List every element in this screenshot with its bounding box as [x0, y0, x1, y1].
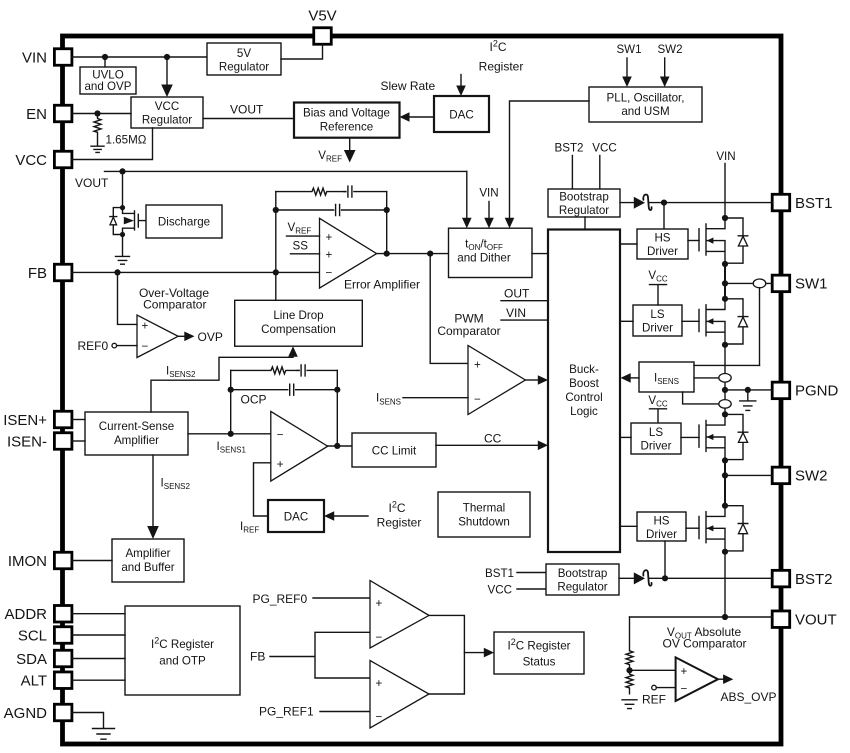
svg-text:Regulator: Regulator [142, 114, 192, 127]
switch squiggle bootstrap2 [643, 570, 651, 586]
wire SW2 node to SW2 pin [725, 474, 772, 476]
svg-text:Register: Register [377, 516, 422, 530]
wire SW1 sensor tap down [759, 288, 761, 366]
wire feedback left vertical [275, 192, 277, 301]
block LS Driver 1 [633, 305, 682, 336]
wire EN to VCC Regulator [72, 113, 131, 115]
svg-text:+: + [474, 358, 481, 371]
node feedback left C2 junction [273, 207, 279, 213]
svg-text:+: + [142, 319, 149, 332]
capacitor error-amp feedback C1 [344, 186, 387, 197]
wire ISEN+ to Current-Sense Amplifier [72, 419, 85, 421]
node OCP output junction [334, 443, 340, 449]
wire IMON to Amplifier and Buffer [72, 560, 112, 562]
op-amp error amplifier [320, 218, 421, 291]
svg-text:ALT: ALT [21, 673, 47, 690]
svg-text:Thermal: Thermal [463, 502, 506, 515]
svg-text:Compensation: Compensation [261, 323, 336, 336]
svg-text:−: − [376, 711, 383, 724]
svg-text:Current-Sense: Current-Sense [99, 420, 174, 433]
svg-text:Bootstrap: Bootstrap [558, 567, 608, 580]
wire VREF input to error amplifier [287, 221, 320, 236]
block UVLO and OVP [80, 67, 136, 94]
wire VOUT sense line [75, 171, 467, 190]
svg-text:BST1: BST1 [485, 567, 514, 580]
wire divider tap to comparator plus [630, 669, 676, 671]
node FB-feedback junction [273, 269, 279, 275]
svg-text:Control: Control [565, 391, 602, 404]
svg-text:SW1: SW1 [795, 276, 828, 293]
wire ISENS input to PWM comparator [376, 392, 468, 407]
sensor ellipse shunt 1 [719, 374, 731, 383]
block Discharge [146, 205, 222, 238]
wire HS1 source to LS1 drain [724, 264, 726, 299]
wire arrow DAC to Bias [400, 112, 435, 122]
wire arrow PG status to I2C Register Status [464, 648, 494, 658]
wire arrow SW1 into PLL [622, 58, 632, 87]
svg-text:Regulator: Regulator [557, 581, 607, 594]
pin BST2 [772, 570, 832, 588]
svg-text:Regulator: Regulator [219, 61, 269, 74]
op-amp PG comparator 1 [370, 661, 429, 729]
wire BST1 into Bootstrap Regulator 2 [517, 572, 546, 574]
svg-text:VOUT: VOUT [795, 612, 837, 629]
svg-text:+: + [277, 458, 284, 471]
svg-text:−: − [474, 393, 481, 406]
svg-text:VIN: VIN [716, 150, 735, 163]
svg-text:−: − [681, 682, 688, 695]
wire VCC into Bootstrap Regulator 2 [517, 588, 546, 590]
block I2C Register and OTP [125, 606, 240, 695]
switch squiggle bootstrap1 [643, 194, 651, 210]
node VOUT junction [722, 614, 728, 620]
wire VCC Regulator output VOUT to Bias [203, 103, 294, 119]
sensor ellipse SW1 [753, 279, 766, 288]
block Bootstrap Regulator 1 [548, 189, 620, 217]
transistor discharge FET [110, 205, 146, 237]
wire arrow I2C Register into DAC [456, 75, 466, 97]
wire Bootstrap1 to Buck-Boost [584, 217, 586, 230]
wire arrow ISENS2 down to Amplifier and Buffer [147, 455, 190, 539]
svg-text:Line Drop: Line Drop [273, 309, 323, 322]
wire VIN to HS1 drain [724, 164, 726, 219]
resistor VOUT divider R1 [626, 651, 633, 668]
svg-text:Driver: Driver [646, 528, 677, 541]
wire SCL to I2C block [72, 634, 125, 636]
block Bias and Voltage Reference [294, 103, 400, 138]
transistor LS2 with body diode [699, 411, 748, 463]
svg-text:Discharge: Discharge [158, 216, 210, 229]
svg-text:SW2: SW2 [795, 468, 828, 485]
pin SCL [18, 627, 72, 645]
capacitor OCP feedback C2 [231, 384, 338, 395]
wire LS1 source down to LS2 drain [724, 345, 726, 415]
node divider tap junction [626, 667, 632, 673]
pin BST1 [772, 194, 832, 212]
svg-text:and USM: and USM [621, 105, 669, 118]
IC boundary border [63, 36, 782, 744]
svg-text:VOUT: VOUT [75, 176, 109, 190]
wire LS2 source to HS2 drain [724, 460, 726, 505]
wire ISENS1 output to OCP [188, 434, 271, 455]
pin ISEN- [7, 433, 72, 451]
svg-text:Error Amplifier: Error Amplifier [344, 278, 420, 292]
wire error-amp output to tON/tOFF [377, 253, 449, 255]
svg-text:PLL, Oscillator,: PLL, Oscillator, [607, 92, 685, 105]
wire arrow OVP output [178, 330, 223, 344]
svg-text:OVP: OVP [198, 330, 223, 344]
pin VCC [15, 151, 72, 169]
diode bootstrap2 [634, 572, 645, 584]
svg-text:BST1: BST1 [795, 195, 833, 212]
capacitor error-amp feedback C2 [276, 205, 387, 216]
svg-text:Status: Status [523, 656, 556, 669]
block HS Driver 1 [637, 229, 688, 259]
node BST1-HSdriver junction [661, 200, 667, 230]
wire PG_REF0 input [253, 592, 371, 606]
wire VIN input to Buck-Boost [501, 306, 548, 320]
block DAC U-top [434, 96, 489, 132]
wire VIN to 5V Regulator [72, 56, 207, 58]
transistor HS2 with body diode [699, 503, 748, 555]
svg-text:SW2: SW2 [657, 43, 682, 56]
sensor ellipse shunt 2 [719, 400, 731, 409]
wire HS2 source down to VOUT node [724, 552, 726, 617]
wire ISENS box mid input from shunt1 [694, 377, 719, 379]
pin ISEN+ [3, 411, 72, 429]
block ISENS amplifier [639, 362, 694, 392]
svg-text:+: + [326, 231, 333, 244]
svg-text:I2C: I2C [388, 500, 405, 516]
block HS Driver 2 [637, 512, 686, 541]
wire PG outputs combine [429, 615, 464, 694]
node REF terminal [642, 685, 676, 706]
svg-text:and Dither: and Dither [457, 252, 511, 265]
op-amp PG comparator 0 [370, 581, 429, 649]
wire Buck-Boost to HS Driver 2 [620, 525, 637, 527]
wire SDA to I2C block [72, 658, 125, 660]
transistor HS1 with body diode [699, 215, 748, 267]
wire 5V Regulator to V5V pin [281, 44, 323, 59]
svg-text:FB: FB [28, 265, 47, 282]
wire AGND to ground [72, 713, 104, 729]
svg-text:VCC: VCC [592, 142, 616, 155]
wire VOUT divider top [629, 617, 631, 651]
block tON/tOFF and Dither [449, 228, 533, 277]
wire ISENS box top input from SW1 tap [694, 364, 760, 366]
transistor LS1 with body diode [699, 296, 748, 348]
pin ADDR [4, 606, 71, 624]
svg-text:SDA: SDA [16, 651, 47, 668]
svg-text:DAC: DAC [284, 511, 308, 524]
wire ISENS2 to Line Drop Compensation [151, 346, 298, 412]
svg-text:−: − [326, 266, 333, 279]
svg-text:LS: LS [650, 308, 664, 321]
svg-text:REF: REF [642, 692, 666, 706]
node SW1 junction [722, 280, 728, 286]
svg-text:IMON: IMON [8, 553, 47, 570]
wire arrow ISENS to Buck-Boost [621, 373, 640, 383]
svg-text:Buck-: Buck- [569, 363, 599, 376]
wire Buck-Boost to HS Driver 1 [620, 243, 637, 245]
svg-text:DAC: DAC [449, 109, 473, 122]
svg-text:VCC: VCC [488, 583, 512, 596]
pin FB [28, 264, 72, 282]
wire OCP left vertical [230, 370, 232, 433]
svg-text:Amplifier: Amplifier [114, 434, 159, 447]
wire PLL output to tON/tOFF arrow [505, 101, 589, 228]
svg-text:ABS_OVP: ABS_OVP [721, 690, 777, 704]
block Bootstrap Regulator 2 [546, 564, 619, 595]
svg-text:Slew Rate: Slew Rate [381, 79, 436, 93]
svg-text:CC: CC [484, 431, 502, 445]
wire arrow CC to Buck-Boost [436, 431, 548, 450]
wire FB line [72, 271, 320, 273]
svg-text:5V: 5V [237, 47, 251, 60]
svg-text:and OVP: and OVP [84, 80, 131, 93]
pin EN [26, 105, 72, 123]
svg-text:Comparator: Comparator [143, 298, 206, 312]
svg-text:CC Limit: CC Limit [372, 445, 417, 458]
pin VIN [22, 49, 72, 67]
svg-text:Comparator: Comparator [437, 324, 500, 338]
wire IREF input to OCP plus [240, 463, 271, 535]
svg-text:HS: HS [653, 515, 669, 528]
svg-text:VCC: VCC [155, 100, 179, 113]
wire ADDR to I2C block [72, 613, 125, 615]
svg-text:AGND: AGND [4, 705, 48, 722]
svg-text:Driver: Driver [647, 245, 678, 258]
node FB-OVP junction [114, 269, 120, 275]
block LS Driver 2 [631, 423, 681, 454]
wire HS Driver 1 gate [688, 240, 699, 242]
ground below 1.65Mohm resistor [91, 146, 104, 152]
wire PGND node to PGND pin [725, 389, 772, 391]
svg-text:EN: EN [26, 106, 47, 123]
ground at AGND [93, 729, 115, 740]
resistor error-amp feedback R [276, 188, 346, 195]
node OCP left C2 junction [228, 387, 234, 393]
wire arrow I2C Register into DAC I-limit [324, 500, 421, 530]
power VCC symbol LS Driver 1 [648, 269, 668, 305]
wire HS Driver 2 to bootstrap2 output node [664, 541, 666, 578]
pin AGND [4, 704, 72, 722]
svg-text:Bias and Voltage: Bias and Voltage [303, 107, 390, 120]
wire PG_REF1 input [259, 705, 370, 719]
svg-text:VCC: VCC [15, 152, 47, 169]
resistor OCP feedback R [231, 367, 299, 374]
wire VCC into Bootstrap Regulator 1 [599, 156, 601, 190]
wire OCP right vertical [336, 370, 338, 446]
svg-text:Register: Register [479, 60, 524, 74]
svg-text:I2C Register: I2C Register [151, 636, 214, 652]
resistor 1.65Mohm [94, 114, 147, 147]
wire Bootstrap1 output to BST1 pin [620, 202, 772, 204]
block VCC Regulator [131, 97, 203, 128]
wire arrow VIN into VCC Regulator [161, 57, 173, 97]
power VCC symbol LS Driver 2 [648, 394, 668, 423]
svg-text:ISEN-: ISEN- [7, 433, 47, 450]
svg-text:BST2: BST2 [795, 571, 833, 588]
node OCP right C2 junction [334, 387, 340, 393]
wire Buck-Boost to LS Driver 1 [620, 320, 633, 322]
svg-text:Reference: Reference [320, 121, 374, 134]
svg-text:VOUT: VOUT [230, 103, 264, 117]
svg-text:BST2: BST2 [555, 142, 584, 155]
ground VOUT divider [622, 700, 637, 709]
op-amp over-voltage comparator [137, 286, 209, 358]
svg-text:−: − [277, 428, 284, 441]
svg-text:1.65MΩ: 1.65MΩ [106, 134, 147, 147]
svg-text:OV Comparator: OV Comparator [662, 637, 746, 651]
svg-text:OUT: OUT [504, 287, 530, 301]
svg-text:REF0: REF0 [78, 339, 109, 353]
wire feedback right vertical [386, 192, 388, 254]
svg-text:Driver: Driver [642, 322, 673, 335]
node error-amp output junction [384, 251, 390, 257]
capacitor OCP feedback C1 [297, 365, 337, 376]
wire ISENS box bottom input from shunt2 [683, 392, 719, 404]
pin ALT [21, 672, 72, 690]
wire OCP output to CC Limit [328, 445, 352, 447]
svg-text:ADDR: ADDR [4, 606, 47, 623]
pin IMON [8, 552, 72, 570]
node output-PWM junction [427, 251, 468, 364]
wire arrow VIN into tON/tOFF [479, 187, 498, 229]
svg-text:VIN: VIN [22, 49, 47, 66]
wire arrow ABS_OVP output [718, 674, 777, 704]
node REF0 terminal [78, 339, 138, 353]
block 5V Regulator [207, 43, 281, 75]
wire arrow VOUT line into tON/tOFF [462, 171, 472, 228]
block Current-Sense Amplifier [85, 412, 188, 455]
wire VOUT node to VOUT pin [630, 616, 773, 618]
op-amp VOUT absolute OV comparator [662, 625, 746, 701]
node feedback right C2 junction [384, 207, 390, 213]
svg-text:Amplifier: Amplifier [125, 547, 170, 560]
pin SW1 [772, 275, 827, 293]
node VOUT-discharge junction [119, 168, 125, 207]
resistor VOUT divider R2 [626, 670, 633, 693]
svg-text:FB: FB [250, 650, 265, 664]
wire ALT to I2C block [72, 679, 125, 681]
svg-text:PGND: PGND [795, 383, 839, 400]
svg-text:PG_REF0: PG_REF0 [253, 592, 308, 606]
svg-text:+: + [376, 597, 383, 610]
wire SS input to error amplifier [291, 240, 320, 254]
node PGND ground junction [745, 387, 751, 393]
svg-text:Shutdown: Shutdown [458, 516, 510, 529]
block Amplifier and Buffer [112, 539, 184, 582]
wire FB input to PG comparators [250, 632, 370, 678]
wire LS Driver 1 gate [682, 320, 699, 322]
svg-text:I2C: I2C [489, 39, 506, 55]
diode bootstrap1 [634, 197, 645, 209]
svg-text:PG_REF1: PG_REF1 [259, 705, 314, 719]
wire Bootstrap2 output to BST2 pin [619, 577, 772, 579]
svg-text:+: + [326, 249, 333, 262]
svg-text:SS: SS [293, 240, 309, 253]
svg-text:−: − [142, 340, 149, 353]
block DAC I-limit [268, 500, 324, 532]
wire BST2 into Bootstrap Regulator 1 [571, 156, 573, 190]
ground at PGND [740, 390, 756, 411]
block CC Limit [352, 433, 436, 467]
svg-text:Driver: Driver [641, 440, 672, 453]
block Line Drop Compensation [235, 300, 363, 346]
block PLL Oscillator and USM [589, 87, 702, 122]
ground below discharge FET [116, 235, 130, 265]
node EN-resistor junction [94, 110, 100, 116]
svg-text:LS: LS [649, 426, 663, 439]
wire ISEN- to Current-Sense Amplifier [72, 440, 85, 442]
svg-text:+: + [681, 665, 688, 678]
label I2C Register (top) [479, 39, 524, 74]
pin SDA [16, 650, 72, 668]
svg-text:and Buffer: and Buffer [121, 561, 174, 574]
pin SW2 [772, 467, 827, 485]
block I2C Register Status [494, 632, 584, 674]
wire OUT input to Buck-Boost [501, 287, 548, 301]
svg-text:−: − [376, 631, 383, 644]
svg-text:I2C Register: I2C Register [507, 637, 570, 653]
op-amp OCP comparator [241, 393, 328, 482]
node PGND junction [722, 387, 728, 393]
svg-text:V5V: V5V [308, 8, 336, 25]
svg-text:OCP: OCP [241, 393, 267, 407]
pin PGND [772, 382, 838, 400]
wire SW1 node to SW1 pin [725, 282, 772, 284]
svg-text:Regulator: Regulator [559, 204, 609, 217]
svg-text:ISEN+: ISEN+ [3, 412, 47, 429]
pin V5V [308, 8, 336, 45]
svg-text:HS: HS [654, 232, 670, 245]
svg-text:SW1: SW1 [616, 43, 641, 56]
wire HS Driver 2 gate [686, 527, 699, 529]
svg-text:and OTP: and OTP [159, 655, 206, 668]
wire arrow VREF down from Bias [318, 138, 355, 164]
wire FB to OVP comparator plus input [118, 272, 138, 324]
pin VOUT [772, 611, 836, 629]
svg-text:SCL: SCL [18, 627, 47, 644]
block Buck-Boost Control Logic [548, 230, 620, 553]
wire tON/tOFF to Buck-Boost [532, 253, 548, 255]
wire LS Driver 2 gate [681, 436, 699, 438]
svg-text:Logic: Logic [570, 405, 598, 418]
svg-text:VIN: VIN [506, 306, 526, 320]
node VIN-VCCreg junction [164, 54, 170, 60]
node SW2 junction [722, 472, 728, 478]
node VIN-UVLO junction [102, 54, 108, 67]
wire VCC pin to VCC Regulator [72, 128, 153, 160]
wire arrow SW2 into PLL [660, 58, 670, 87]
wire Buck-Boost to LS Driver 2 [620, 436, 631, 438]
op-amp PWM comparator [437, 311, 525, 414]
node BST2-HSdriver junction [662, 575, 668, 581]
wire arrow PWM output to Buck-Boost [525, 375, 548, 385]
svg-text:Boost: Boost [569, 377, 599, 390]
svg-text:VIN: VIN [479, 187, 498, 200]
block Thermal Shutdown [438, 492, 530, 537]
svg-text:+: + [376, 677, 383, 690]
svg-text:Bootstrap: Bootstrap [559, 191, 609, 204]
node ISENS1 junction [228, 431, 234, 437]
